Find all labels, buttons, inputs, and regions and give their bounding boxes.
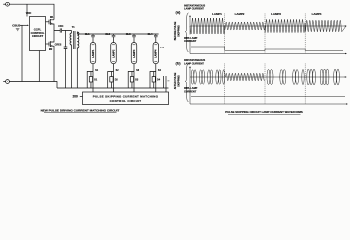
terminal (+) input <box>6 2 10 6</box>
svg-text:(a): (a) <box>176 10 182 15</box>
wire branch left lamp3 <box>128 72 134 89</box>
ground hatch under CBUS <box>16 29 20 31</box>
wire VDD drop to control box <box>26 4 28 16</box>
lamp LAMP2 tube <box>111 43 117 64</box>
dashed lamp-section separator x=224.7 <box>224 14 226 105</box>
svg-text:LAMP CURRENT: LAMP CURRENT <box>184 8 204 11</box>
T1 primary winding <box>70 31 72 89</box>
trace (b) rms matched flat <box>191 96 345 98</box>
svg-text:LAMP4: LAMP4 <box>312 12 322 16</box>
wire lamp HV bus <box>77 33 158 35</box>
wire main lamp4 to control box <box>155 72 157 93</box>
terminal (-) return <box>6 80 10 84</box>
switch D1 box <box>89 77 92 82</box>
svg-text:NEW PULSE DRIVING CURRENT MATC: NEW PULSE DRIVING CURRENT MATCHING CIRCU… <box>41 108 120 112</box>
wire lamp1 bottom lead <box>92 64 94 72</box>
svg-text:LAMP2: LAMP2 <box>235 12 245 16</box>
capacitor CL3 <box>132 34 136 43</box>
trace (a) rms staircase mismatched <box>191 47 343 51</box>
wire top supply rail <box>9 4 54 19</box>
brace (a) <box>185 13 188 52</box>
wire main lamp1 to control box <box>92 72 94 93</box>
svg-text:CIRCUIT: CIRCUIT <box>32 34 44 38</box>
svg-text:LAMP1: LAMP1 <box>92 49 95 58</box>
wire branch left lamp4 <box>150 72 156 89</box>
svg-text:CRES: CRES <box>55 44 62 47</box>
svg-text:LAMP2: LAMP2 <box>112 49 115 58</box>
T1 core <box>74 31 75 49</box>
partial 5th sense branch <box>164 76 167 92</box>
dashed lamp-section separator x=265 <box>264 14 266 105</box>
capacitor CL2 <box>112 34 116 43</box>
switch D4 box <box>152 77 155 82</box>
svg-text:··: ·· <box>168 79 170 83</box>
axis (a) rms <box>190 41 346 54</box>
svg-text:-: - <box>7 80 8 84</box>
axis (b) rms <box>190 89 347 105</box>
waveform (b) pulse skipped bursts <box>191 69 339 85</box>
switch D2 box <box>110 77 113 82</box>
wire branch left lamp1 <box>87 72 93 89</box>
svg-text:CURRENT: CURRENT <box>184 91 197 94</box>
lamp LAMP3 tube <box>131 43 137 64</box>
svg-text:CL2: CL2 <box>105 32 110 36</box>
svg-text:200: 200 <box>73 95 79 99</box>
svg-text:CL3: CL3 <box>126 32 131 36</box>
wire lamp2 bottom lead <box>113 64 115 72</box>
lamp LAMP4 tube <box>153 43 159 64</box>
capacitor CL4 <box>154 34 158 43</box>
wire bottom return rail right <box>57 87 169 89</box>
waveform (a) mismatched lamp currents <box>190 18 346 34</box>
svg-text:LAMP4: LAMP4 <box>155 49 158 58</box>
wire lamp4 bottom lead <box>155 64 157 72</box>
svg-text:···: ··· <box>160 45 164 49</box>
wire lamp3 bottom lead <box>133 64 135 72</box>
svg-text:SKIPPING: SKIPPING <box>177 25 180 37</box>
CCFL control circuit box U1 <box>30 17 46 51</box>
svg-text:LAMP1: LAMP1 <box>212 12 222 16</box>
svg-text:CURRENT: CURRENT <box>184 40 197 43</box>
switch D3 box <box>130 77 133 82</box>
lamp LAMP1 tube <box>90 43 96 64</box>
waveform (a) zero axis line <box>190 25 346 27</box>
svg-text:PULSE SKIPPING CIRCUIT LAMP CU: PULSE SKIPPING CIRCUIT LAMP CURRENT WAVE… <box>225 110 303 114</box>
wire CBUS return down to bottom rail <box>21 25 23 81</box>
svg-text:CONTROL CIRCUIT: CONTROL CIRCUIT <box>110 99 142 103</box>
svg-text:SKIPPING: SKIPPING <box>177 75 180 87</box>
dashed lamp-section separator x=305.2 <box>304 14 306 105</box>
svg-text:CDC: CDC <box>58 25 63 28</box>
wire branch left lamp2 <box>108 72 114 89</box>
axis (a) instantaneous <box>189 16 191 35</box>
svg-text:CL4: CL4 <box>147 32 152 36</box>
pulse skipping control box U2 <box>83 92 169 105</box>
svg-text:CBUS: CBUS <box>12 24 20 28</box>
capacitor CL1 <box>91 34 95 43</box>
svg-text:CL1: CL1 <box>85 32 90 36</box>
svg-text:LAMP3: LAMP3 <box>271 12 281 16</box>
waveform (b) center line <box>190 76 346 78</box>
T1 secondary winding <box>77 32 79 88</box>
waveform (b) lamp2 continuous <box>226 73 265 81</box>
axis (b) instantaneous <box>189 67 191 87</box>
brace (b) <box>185 63 188 102</box>
wire bottom return rail left <box>9 82 57 89</box>
svg-text:VDD: VDD <box>26 11 32 15</box>
svg-text:LAMP3: LAMP3 <box>133 49 136 58</box>
wire main lamp2 to control box <box>113 72 115 93</box>
svg-text:(b): (b) <box>176 61 182 66</box>
wire main lamp3 to control box <box>133 72 135 93</box>
wire box bottom pin to bottom rail <box>38 51 40 82</box>
